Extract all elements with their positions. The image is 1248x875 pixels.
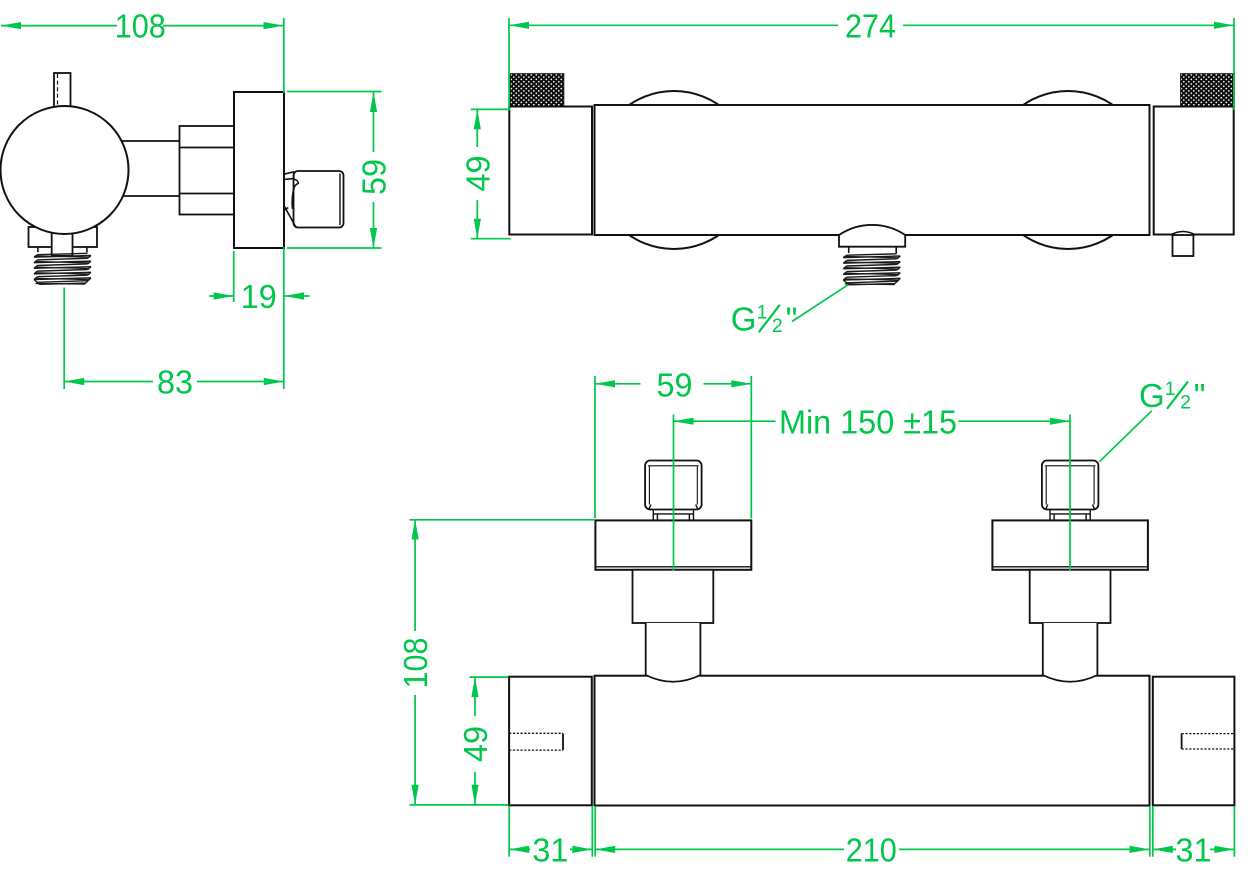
dimension 210 [595,848,1149,850]
left housing [509,107,592,235]
left hex adapter [633,570,714,623]
svg-text:49: 49 [457,726,494,762]
svg-text:31: 31 [532,832,568,869]
bottom extension lines [509,806,1234,857]
connector tube lines [122,140,180,142]
right end cap [1153,677,1235,806]
right knurled cap [1181,74,1235,107]
svg-text:1: 1 [757,301,768,323]
shoulder stubs [37,247,39,252]
outlet neck [848,247,850,253]
label G half inch (front) [731,285,848,338]
wall plate [234,92,284,248]
left set screw [509,733,563,750]
left neck [653,510,693,521]
left escutcheon plate [595,520,751,569]
svg-text:Min 150 ±15: Min 150 ±15 [779,403,957,440]
left cylinder [646,623,701,682]
svg-text:19: 19 [241,278,277,315]
svg-text:59: 59 [657,366,693,403]
sphere handle [1,106,129,234]
outlet stem [52,229,73,256]
dimension 274 [509,18,1234,110]
svg-text:G: G [731,300,757,337]
dimension 19 [209,251,310,302]
dimension 59 (plate) [595,376,751,519]
svg-text:274: 274 [845,7,896,44]
hex nut [180,126,235,215]
svg-text:": " [1194,377,1206,414]
bottom outlet flange [839,225,905,247]
svg-text:49: 49 [459,156,496,192]
handle pin [54,73,71,107]
dimension 49 (front) [471,109,511,238]
label G half inch (top) [1099,377,1205,462]
thread A (under sphere) [34,253,91,284]
dimension 31 (left) [509,848,592,850]
lever wedge [284,172,294,180]
right nipple [1042,461,1099,510]
right set screw [1182,734,1235,749]
svg-text:83: 83 [157,364,193,401]
dimension 83 [64,288,284,390]
dimension 59 (side) [287,92,382,249]
right small outlet [1171,232,1196,236]
thread B (outlet) [843,254,900,285]
right escutcheon plate [992,520,1148,569]
svg-text:108: 108 [397,638,434,689]
volume knob [294,171,344,228]
dimension 49 (bar) [470,677,509,805]
svg-text:210: 210 [846,832,897,869]
right cylinder [1043,623,1098,682]
lower shoulder block [29,227,98,247]
svg-text:108: 108 [115,8,166,45]
union disc left [595,91,753,249]
main tube body [595,105,1150,235]
svg-text:G: G [1139,377,1165,414]
left nipple [645,461,702,510]
svg-text:31: 31 [1176,832,1212,869]
svg-text:1: 1 [1165,378,1176,400]
union disc right [989,91,1147,249]
dimension 31 (right) [1153,848,1235,850]
svg-text:2: 2 [1180,391,1191,413]
pin dashed line [57,74,59,106]
bar tube [595,676,1150,806]
svg-text:2: 2 [772,315,783,337]
svg-text:59: 59 [356,159,393,195]
right neck [1050,510,1090,521]
dimension Min 150 +-15 [674,415,1071,571]
dimension 108 (vertical) [410,520,595,805]
right housing [1154,107,1234,235]
dimension 108 (top) [1,18,284,389]
left knurled cap [510,74,564,107]
left end cap [509,677,592,806]
right hex adapter [1030,570,1111,623]
